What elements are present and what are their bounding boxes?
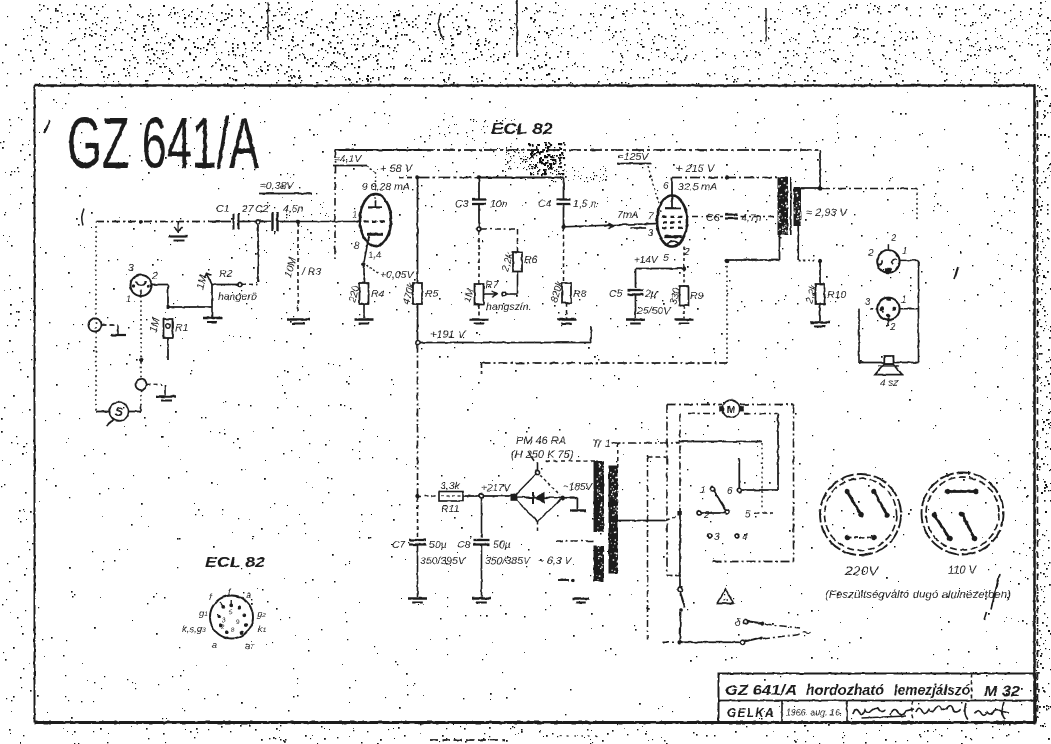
svg-text:/ R3: / R3 [301, 266, 321, 278]
svg-text:≈4,1V: ≈4,1V [334, 153, 362, 165]
svg-text:27: 27 [241, 203, 255, 215]
svg-text:hordozható: hordozható [806, 683, 884, 699]
svg-text:hangerő: hangerő [218, 291, 257, 303]
svg-text:S: S [115, 405, 123, 419]
svg-text:+ 215 V: + 215 V [676, 163, 716, 175]
svg-text:6: 6 [727, 486, 733, 497]
svg-text:~185V: ~185V [563, 482, 594, 493]
svg-text:1: 1 [352, 210, 358, 221]
svg-text:≈0,38V: ≈0,38V [260, 180, 294, 192]
svg-text:C1: C1 [216, 203, 229, 215]
svg-text:~ 6,3 V: ~ 6,3 V [538, 555, 573, 567]
svg-text:350/385V: 350/385V [485, 555, 531, 567]
svg-text:32,5 mA: 32,5 mA [678, 181, 717, 193]
svg-text:4 sz: 4 sz [880, 378, 898, 389]
svg-text:a: a [212, 640, 217, 650]
svg-text:+14V: +14V [634, 255, 659, 266]
svg-text:ECL 82: ECL 82 [491, 121, 553, 138]
svg-text:220V: 220V [844, 566, 880, 578]
svg-text:GZ 641/A: GZ 641/A [725, 683, 797, 699]
svg-text:R10: R10 [827, 289, 846, 301]
svg-text:(Feszültségváltó dugó alulné: (Feszültségváltó dugó alulnézetben) [825, 589, 1011, 601]
svg-text:3,3k: 3,3k [440, 480, 461, 492]
svg-text:50µ: 50µ [429, 539, 447, 551]
svg-text:R2: R2 [219, 268, 233, 280]
svg-text:R4: R4 [371, 288, 385, 300]
svg-text:7: 7 [648, 211, 654, 222]
svg-text:3: 3 [865, 297, 871, 308]
svg-text:PM 46 RA: PM 46 RA [516, 435, 566, 447]
svg-text:(H 250 K 75): (H 250 K 75) [511, 449, 574, 461]
svg-text:8: 8 [231, 627, 235, 634]
svg-text:R5: R5 [425, 288, 439, 300]
svg-text:C2: C2 [255, 203, 269, 215]
svg-text:δ: δ [735, 618, 741, 629]
svg-text:+191 V: +191 V [430, 329, 467, 341]
svg-text:+ 58 V: + 58 V [380, 163, 414, 175]
svg-text:3: 3 [648, 228, 654, 239]
svg-text:2: 2 [890, 233, 897, 244]
svg-text:1966. aug. 16.: 1966. aug. 16. [786, 708, 842, 719]
svg-text:+0,05V: +0,05V [380, 269, 415, 281]
svg-text:3: 3 [714, 532, 720, 543]
svg-text:4,5n: 4,5n [283, 203, 304, 215]
svg-text:≈ 2,93 V: ≈ 2,93 V [806, 207, 849, 219]
svg-text:1: 1 [901, 295, 907, 306]
svg-text:GELKA: GELKA [727, 705, 775, 720]
svg-text:1,5 n: 1,5 n [573, 198, 597, 210]
svg-text:3: 3 [128, 262, 134, 274]
svg-text:C8: C8 [457, 539, 471, 551]
svg-text:lemezjálszó: lemezjálszó [894, 683, 970, 699]
svg-text:1: 1 [700, 485, 706, 496]
svg-text:R9: R9 [690, 290, 704, 302]
svg-text:R7: R7 [485, 279, 500, 291]
svg-text:M 32: M 32 [984, 683, 1021, 700]
svg-text:2: 2 [867, 248, 874, 259]
svg-text:1: 1 [902, 246, 908, 257]
svg-text:8: 8 [354, 241, 360, 252]
svg-text:4: 4 [742, 532, 748, 543]
svg-text:9 0,28 mA: 9 0,28 mA [362, 181, 410, 193]
svg-text:~: ~ [802, 625, 811, 642]
svg-text:C7: C7 [392, 539, 407, 551]
svg-text:2µ: 2µ [644, 288, 657, 300]
svg-text:Tr 1: Tr 1 [592, 438, 611, 450]
svg-text:M: M [727, 404, 736, 416]
svg-text:350/395V: 350/395V [420, 555, 466, 567]
svg-text:10n: 10n [490, 198, 508, 210]
svg-text:5: 5 [229, 609, 233, 616]
svg-text:R1: R1 [175, 322, 188, 334]
svg-text:3: 3 [222, 617, 226, 624]
svg-text:GZ 641/A: GZ 641/A [67, 104, 259, 184]
svg-text:C6: C6 [706, 212, 720, 224]
svg-text:110 V: 110 V [948, 565, 977, 577]
svg-text:2: 2 [151, 270, 158, 282]
svg-text:4,7n: 4,7n [741, 212, 762, 224]
svg-text:R6: R6 [524, 254, 538, 266]
svg-text:R11: R11 [441, 503, 459, 515]
svg-text:C5: C5 [609, 288, 623, 300]
svg-text:C3: C3 [455, 198, 469, 210]
svg-text:R8: R8 [573, 288, 587, 300]
svg-text:a: a [246, 590, 251, 600]
svg-text:hangszín.: hangszín. [486, 301, 532, 313]
svg-text:+217V: +217V [481, 483, 512, 494]
svg-text:≈125V: ≈125V [618, 151, 649, 163]
svg-text:7mA: 7mA [617, 209, 639, 221]
svg-text:9: 9 [236, 619, 240, 626]
svg-text:5: 5 [745, 510, 751, 521]
svg-text:2: 2 [221, 624, 225, 631]
svg-text:C4: C4 [538, 198, 552, 210]
svg-text:25/50V: 25/50V [636, 305, 671, 317]
svg-text:1,4: 1,4 [368, 250, 381, 261]
svg-text:1: 1 [126, 294, 131, 304]
svg-text:6: 6 [663, 181, 669, 192]
svg-text:2: 2 [889, 322, 896, 333]
svg-text:2: 2 [703, 510, 710, 521]
svg-text:50µ: 50µ [493, 539, 511, 551]
svg-text:ECL 82: ECL 82 [205, 554, 266, 571]
svg-text:5: 5 [663, 253, 669, 264]
